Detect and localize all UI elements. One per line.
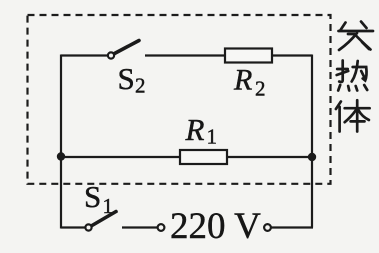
switch S2 blade (open) bbox=[115, 41, 140, 54]
switch S1 blade (open) bbox=[92, 212, 116, 226]
supply terminal (right) bbox=[264, 224, 271, 231]
wire: from switch S2 to resistor R2 bbox=[145, 54, 225, 56]
svg-text:1: 1 bbox=[207, 125, 218, 149]
resistor R1 bbox=[180, 150, 227, 164]
svg-text:R: R bbox=[185, 112, 205, 147]
svg-text:2: 2 bbox=[135, 74, 146, 98]
wire: middle-left segment from node A to resistor R1 bbox=[61, 156, 180, 158]
wire: bottom-left segment to switch S1 bbox=[61, 226, 85, 228]
wire: from switch S1 to left supply terminal bbox=[122, 226, 157, 228]
label: 体 (heating element text, char 3) bbox=[336, 100, 370, 131]
svg-text:R: R bbox=[233, 64, 252, 97]
svg-text:S: S bbox=[118, 61, 135, 96]
wire: left vertical rail bbox=[60, 55, 62, 229]
wire: right vertical (top branch down to node B) bbox=[311, 55, 313, 158]
resistor R2 bbox=[225, 49, 272, 63]
switch S1 pivot contact bbox=[85, 224, 91, 230]
svg-text:220 V: 220 V bbox=[170, 206, 261, 247]
switch S2 pivot contact bbox=[108, 52, 114, 58]
wire: top-left segment from corner to switch S2 bbox=[61, 54, 107, 56]
node B (right junction) bbox=[308, 153, 316, 161]
svg-text:1: 1 bbox=[103, 194, 114, 218]
heating element enclosure (dashed boundary) bbox=[28, 15, 331, 184]
label: 发 (heating element text, char 1) bbox=[339, 22, 374, 51]
supply terminal (left) bbox=[158, 224, 165, 231]
label: 热 (heating element text, char 2) bbox=[337, 61, 368, 91]
wire: right vertical (node B down to bottom wire) bbox=[311, 157, 313, 228]
wire: from right supply terminal to bottom-right corner bbox=[271, 226, 313, 228]
wire: from resistor R2 to top-right corner bbox=[272, 54, 312, 56]
svg-text:2: 2 bbox=[255, 77, 266, 101]
svg-text:S: S bbox=[84, 179, 101, 214]
node A (left junction) bbox=[57, 152, 65, 160]
wire: from resistor R1 to node B bbox=[227, 156, 312, 158]
